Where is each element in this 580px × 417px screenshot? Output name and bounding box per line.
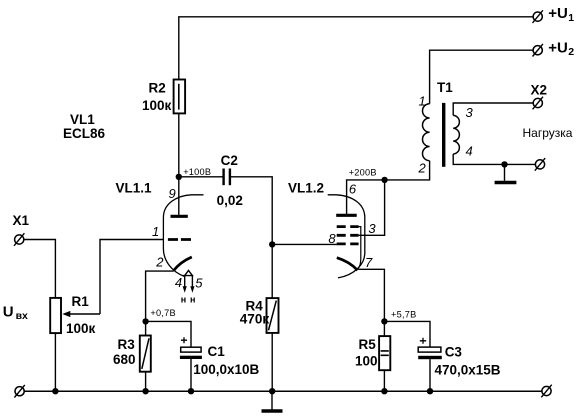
label C1 100,0x10В: [193, 344, 259, 377]
heater of VL1.1 (pins 4,5): [183, 270, 195, 292]
pin label 7: [365, 255, 373, 270]
svg-text:+U: +U: [548, 5, 568, 22]
terminal +U1: [533, 10, 543, 23]
pentode VL1.2 anode plate: [336, 214, 357, 217]
terminal +U2: [533, 44, 543, 57]
pin label 9: [169, 186, 176, 201]
wire R1 bottom to ground rail: [54, 333, 56, 391]
svg-text:R1: R1: [72, 294, 90, 309]
pentode suppressor grid g3: [337, 225, 359, 228]
svg-text:5: 5: [195, 275, 203, 290]
svg-text:7: 7: [365, 255, 373, 270]
svg-text:R5: R5: [359, 337, 377, 352]
wire node to pentode grid pin 8: [272, 243, 337, 245]
label X2: [531, 83, 548, 98]
ground rail: [24, 390, 542, 392]
wire g3 internal to cathode: [358, 227, 361, 269]
transformer pin labels 1 2: [418, 93, 427, 175]
terminal X2: [533, 97, 543, 110]
pin label 1: [152, 224, 159, 239]
svg-text:X2: X2: [531, 83, 548, 98]
svg-text:+100В: +100В: [183, 167, 211, 177]
svg-text:вх: вх: [16, 310, 28, 322]
svg-text:C1: C1: [208, 344, 226, 359]
ground symbol below rail: [262, 391, 283, 411]
label +0,7В: [150, 308, 176, 318]
svg-text:680: 680: [113, 352, 136, 367]
label VL1 ECL86: [63, 112, 106, 141]
svg-text:C2: C2: [221, 153, 238, 168]
svg-text:C3: C3: [445, 345, 463, 360]
pin label 6: [349, 182, 357, 197]
wire +U2 to transformer pin 1: [430, 50, 533, 103]
svg-text:1: 1: [568, 12, 574, 24]
labels н н: [181, 295, 196, 305]
triode VL1.1 grid (pin 1): [168, 238, 191, 241]
wire triode grid pin1 to R1 wiper: [100, 240, 163, 315]
wire C2 to grid node to R4 top: [231, 177, 272, 298]
svg-text:4: 4: [466, 144, 473, 159]
pentode VL1.2 cathode: [337, 258, 358, 271]
label +100В: [183, 167, 211, 177]
svg-text:н: н: [181, 295, 186, 305]
label +U2: [548, 39, 574, 58]
svg-text:470,0x15В: 470,0x15В: [435, 363, 501, 378]
pin label 3: [368, 221, 376, 236]
label +5,7В: [391, 309, 417, 319]
svg-text:2: 2: [418, 161, 427, 176]
triode VL1.1 cathode: [174, 257, 192, 271]
transformer T1 secondary winding: [453, 115, 459, 154]
triode VL1.1 envelope: [163, 195, 203, 277]
wire R5 bottom to ground rail: [383, 370, 385, 391]
label +200В: [349, 168, 377, 178]
terminal ground right: [541, 385, 551, 398]
svg-text:2: 2: [155, 254, 164, 269]
svg-text:3: 3: [368, 221, 376, 236]
label X1: [13, 213, 30, 228]
svg-text:R2: R2: [149, 81, 166, 96]
svg-text:+0,7В: +0,7В: [150, 308, 176, 318]
svg-text:+5,7В: +5,7В: [391, 309, 417, 319]
resistor R5: [379, 336, 390, 370]
label Uвх: [3, 304, 28, 323]
wire node to C3 top: [384, 321, 430, 347]
wire +200В node: pentode anode to transformer pin 2: [347, 161, 430, 215]
node secondary ground: [501, 161, 507, 167]
node +0,7В: [142, 318, 148, 324]
svg-text:R3: R3: [118, 337, 136, 352]
transformer T1 core: [442, 103, 445, 167]
potentiometer R1: [50, 298, 61, 333]
wire C3 bottom to ground rail: [429, 359, 431, 391]
capacitor C2: [224, 169, 230, 186]
wire node to C1 top: [146, 321, 191, 347]
wire R4 bottom to ground rail: [271, 333, 273, 391]
svg-text:1: 1: [419, 93, 426, 108]
svg-text:470к: 470к: [240, 312, 270, 327]
svg-text:+200В: +200В: [349, 168, 377, 178]
svg-text:VL1.1: VL1.1: [116, 181, 153, 196]
rail junction dots: [52, 388, 433, 394]
svg-text:100: 100: [355, 354, 378, 369]
svg-text:100,0x10В: 100,0x10В: [193, 362, 259, 377]
wire C1 bottom to ground rail: [190, 359, 192, 391]
triode VL1.1 anode plate: [171, 215, 188, 218]
wire secondary pin 4 to load terminal: [453, 154, 535, 164]
pentode screen grid g2: [337, 234, 359, 237]
resistor R3: [140, 336, 151, 372]
label Нагрузка: [523, 126, 573, 140]
pin label 8: [328, 231, 336, 246]
ground symbol at transformer secondary: [495, 164, 517, 182]
transformer T1 primary winding: [422, 104, 429, 161]
terminal ground left: [14, 385, 24, 398]
svg-text:X1: X1: [13, 213, 30, 228]
label +U1: [548, 5, 574, 24]
input terminal X1: [14, 233, 24, 246]
label VL1.1: [116, 181, 153, 196]
svg-text:ECL86: ECL86: [63, 126, 106, 141]
label R2 100к: [142, 81, 172, 113]
wire R2 bottom through +100В node to triode anode: [178, 113, 180, 214]
svg-text:VL1: VL1: [70, 112, 95, 127]
label R3 680: [113, 337, 136, 367]
wire +U1 rail from R2 top: [179, 17, 533, 80]
svg-text:T1: T1: [437, 80, 453, 95]
svg-text:1: 1: [152, 224, 159, 239]
node g1 VL1.2: [269, 241, 275, 247]
label R5 100: [355, 337, 378, 369]
label VL1.2: [288, 180, 324, 195]
wire node to C2: [179, 176, 223, 178]
wire screen grid pin 3 to +200В node: [359, 180, 385, 235]
capacitor C3: [418, 338, 442, 359]
svg-text:100к: 100к: [66, 321, 96, 336]
svg-text:U: U: [3, 304, 14, 321]
label R4 470к: [240, 298, 270, 326]
svg-text:4: 4: [175, 275, 182, 290]
wire cathode pin 7 to +5,7В node: [358, 269, 384, 336]
svg-text:100к: 100к: [142, 98, 172, 113]
wire R3 bottom to ground rail: [145, 372, 147, 392]
wire cathode pin 2 to +0,7В node and R3 top: [146, 271, 174, 335]
svg-text:6: 6: [349, 182, 357, 197]
R1 wiper arrow: [62, 311, 100, 317]
svg-text:VL1.2: VL1.2: [288, 180, 324, 195]
wire secondary pin 3 to X2: [453, 103, 533, 115]
transformer pin labels 3 4: [466, 105, 474, 159]
label T1: [437, 80, 453, 95]
label R1 100к: [66, 294, 96, 336]
pin labels 4 5: [175, 275, 203, 291]
svg-text:9: 9: [169, 186, 176, 201]
pin label 2: [155, 254, 164, 269]
label C3 470,0x15В: [435, 345, 501, 378]
capacitor C1: [180, 337, 202, 359]
svg-text:3: 3: [466, 105, 474, 120]
svg-text:н: н: [190, 295, 195, 305]
label C2 0,02: [217, 153, 243, 208]
node +5,7В: [381, 318, 387, 324]
node +100В: [176, 174, 182, 180]
svg-text:8: 8: [328, 231, 336, 246]
svg-text:Нагрузка: Нагрузка: [523, 126, 573, 140]
wire X1 to R1 top: [24, 240, 56, 298]
svg-text:2: 2: [568, 46, 574, 58]
terminal load bottom: [535, 158, 545, 171]
node +200В: [381, 177, 387, 183]
svg-text:0,02: 0,02: [217, 193, 243, 208]
pentode control grid g1 (pin 8): [337, 242, 359, 245]
svg-text:+U: +U: [548, 39, 568, 56]
resistor R4: [267, 298, 279, 333]
pentode VL1.2 envelope: [328, 195, 365, 278]
resistor R2: [174, 80, 186, 114]
